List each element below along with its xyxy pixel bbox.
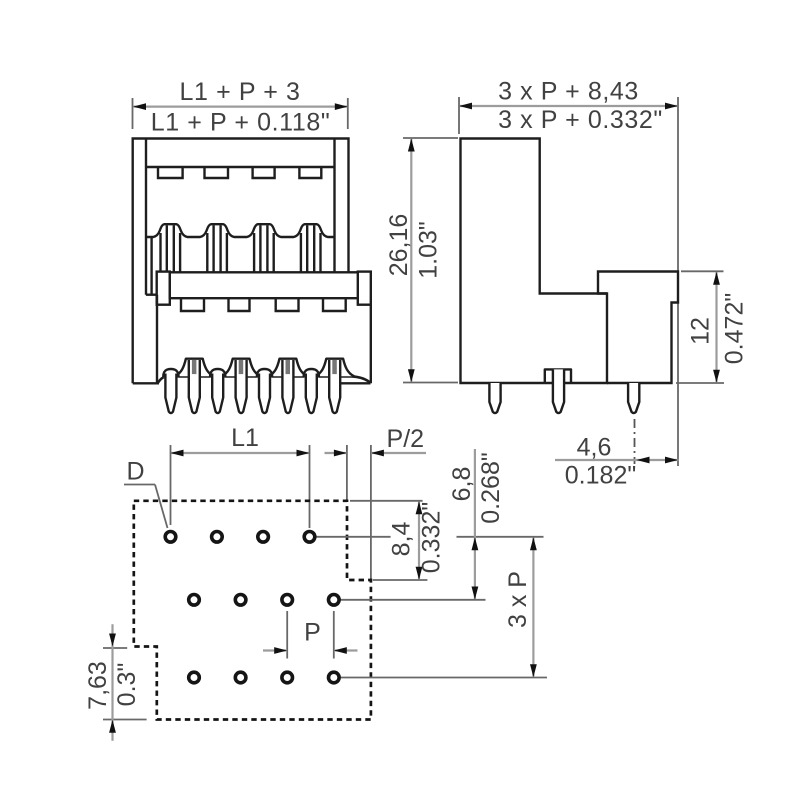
holes row 3 xyxy=(189,672,200,683)
front pins xyxy=(165,360,340,413)
lower slot 2 xyxy=(229,299,250,311)
row witness lines xyxy=(316,537,547,678)
right wall inner xyxy=(333,139,335,273)
L1 witness right xyxy=(309,445,311,528)
dimension 8,4 / 0.332" xyxy=(350,501,446,580)
top slot 2 xyxy=(205,167,229,178)
svg-text:3 x P: 3 x P xyxy=(504,571,532,628)
svg-text:P/2: P/2 xyxy=(387,425,425,453)
top slot 4 xyxy=(299,167,321,178)
arrow down xyxy=(408,369,415,382)
pin 3 xyxy=(212,374,223,414)
dimension 3xP xyxy=(504,537,537,677)
bump4 pin lines xyxy=(306,225,308,272)
bump2 pin lines xyxy=(212,225,214,272)
dimension 4,6 / 0.182" xyxy=(555,434,679,490)
pin 1 xyxy=(165,374,176,414)
pin B xyxy=(553,369,564,413)
lower slot 3 xyxy=(276,299,299,311)
dashed footprint outline xyxy=(134,501,371,720)
arrow right xyxy=(335,103,348,110)
dim line xyxy=(715,272,717,383)
lower body left edge xyxy=(156,295,158,384)
svg-text:L1 + P + 0.118": L1 + P + 0.118" xyxy=(151,109,331,137)
pin 4 xyxy=(236,360,247,413)
svg-text:0.182": 0.182" xyxy=(565,462,636,490)
bump1 flank lines xyxy=(159,233,161,272)
dimension 6,8 / 0.268" xyxy=(448,449,505,600)
gray strips in bottom-wave peaks xyxy=(192,360,337,374)
pin 6 xyxy=(282,360,293,413)
left wall step xyxy=(146,294,157,296)
peak 1 xyxy=(175,359,214,377)
bar right end cap xyxy=(358,272,371,305)
bump3 pin lines xyxy=(259,225,261,272)
pin 2 xyxy=(189,360,200,413)
dimension 26,16 / 1.03" (between views) xyxy=(385,138,458,383)
holes row 2 xyxy=(189,595,200,606)
svg-text:26,16: 26,16 xyxy=(385,214,413,277)
svg-text:6,8: 6,8 xyxy=(448,467,476,502)
witness top xyxy=(681,270,724,272)
peak 2 xyxy=(222,359,261,377)
bottom wave valley line xyxy=(158,376,371,383)
P/2 dim xyxy=(325,452,347,454)
svg-text:L1 + P + 3: L1 + P + 3 xyxy=(180,78,301,106)
svg-text:8,4: 8,4 xyxy=(388,522,416,557)
lower slot 1 xyxy=(181,299,204,311)
right block xyxy=(598,272,678,384)
side pins xyxy=(489,369,639,413)
left wall inner upper xyxy=(145,139,147,295)
lower slot 4 xyxy=(323,299,346,311)
arrow up xyxy=(408,139,415,152)
bottom edge left segment xyxy=(133,382,159,384)
dim line xyxy=(410,139,412,382)
dimension line L1+P+3 xyxy=(133,105,347,107)
arrow left xyxy=(133,103,146,110)
peak 4 xyxy=(315,359,354,377)
top band bottom edge xyxy=(146,166,335,168)
domes over front-row pins xyxy=(163,369,319,377)
svg-text:4,6: 4,6 xyxy=(577,434,612,462)
witness right (long, down to 4,6 dim) xyxy=(677,97,679,466)
svg-text:0.268": 0.268" xyxy=(477,452,505,523)
pin 5 xyxy=(259,374,270,414)
svg-text:L1: L1 xyxy=(231,424,259,452)
holes row 1 xyxy=(165,532,339,683)
svg-text:3 x P + 0.332": 3 x P + 0.332" xyxy=(498,106,663,134)
svg-text:0.3": 0.3" xyxy=(113,663,141,707)
bar left end cap xyxy=(157,272,170,305)
svg-text:1.03": 1.03" xyxy=(415,221,443,279)
L1 dim line xyxy=(171,452,309,454)
dimension P xyxy=(263,611,358,659)
svg-text:3 x P + 8,43: 3 x P + 8,43 xyxy=(498,78,639,106)
witness left xyxy=(458,97,460,134)
witness bottom xyxy=(403,382,458,384)
pin C centerline xyxy=(634,419,636,464)
wavy outline with 4 bumps xyxy=(146,224,335,237)
mounting flange bar xyxy=(157,272,371,305)
pin C xyxy=(628,383,639,413)
pin A xyxy=(489,383,500,413)
dimension L1+P+3 witness left xyxy=(132,98,134,129)
svg-text:D: D xyxy=(126,458,144,486)
svg-text:12: 12 xyxy=(687,317,715,345)
dimension 7,63 / 0.3" xyxy=(84,624,147,740)
main L outline xyxy=(461,139,608,384)
svg-text:0.472": 0.472" xyxy=(721,293,749,364)
bump2 flank lines xyxy=(206,233,208,272)
bottom wave peaks (volcano shapes over back-row pins) xyxy=(175,359,354,377)
lower body right edge xyxy=(370,305,372,384)
dim line 3xP+8,43 xyxy=(460,105,678,107)
svg-text:7,63: 7,63 xyxy=(84,661,112,710)
svg-text:P: P xyxy=(304,619,321,647)
bump3 flank lines xyxy=(253,233,255,272)
dimension L1+P+3 witness right xyxy=(347,98,349,129)
pin 7 xyxy=(306,374,317,414)
bar main xyxy=(170,272,358,298)
bottom edge right segment xyxy=(338,382,371,384)
bump4 flank lines xyxy=(300,233,302,272)
pin B collar xyxy=(545,369,571,383)
svg-text:0.332": 0.332" xyxy=(418,502,446,573)
witness top xyxy=(403,137,458,139)
dimension 12 / 0.472" xyxy=(676,271,749,383)
witness bottom xyxy=(676,382,724,384)
wave contact section xyxy=(146,224,335,272)
top slot 1 xyxy=(158,167,183,178)
P/2 witness lines xyxy=(346,445,348,500)
peak 3 xyxy=(268,359,307,377)
L1 witness left xyxy=(170,445,172,525)
top slot 3 xyxy=(253,167,275,178)
bump1 pin lines xyxy=(166,225,168,272)
outer body outline xyxy=(133,139,349,384)
pin 8 xyxy=(329,360,340,413)
